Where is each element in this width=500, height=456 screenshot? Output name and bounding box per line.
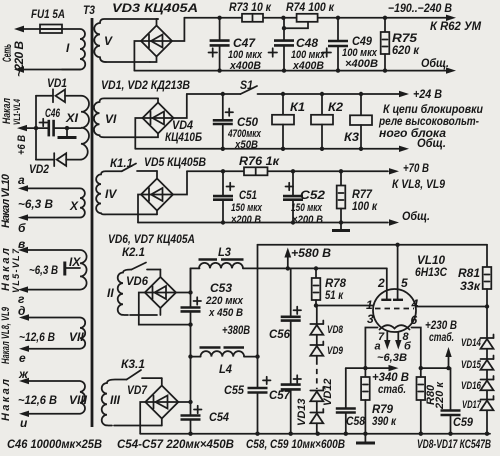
svg-text:VII: VII: [69, 330, 84, 344]
svg-text:К3.1: К3.1: [121, 357, 145, 371]
chassis ground below R77: [332, 223, 350, 231]
zener VD9: [310, 342, 343, 360]
output arrow +580V: [284, 246, 331, 271]
svg-text:+6 В: +6 В: [16, 135, 28, 155]
svg-text:L3: L3: [218, 245, 231, 259]
tube grid dashed: [366, 297, 419, 312]
svg-text:б: б: [18, 221, 26, 235]
inductor L3: [191, 245, 244, 268]
winding VIII arrows and labels: [0, 367, 57, 430]
svg-text:К3: К3: [344, 130, 359, 144]
output arrow -190..-240V: [388, 1, 482, 33]
tube cathode pin 6 wire: [411, 313, 421, 368]
dashed wire omitted zeners VD10 VD11: [316, 360, 318, 390]
output arrow +24V: [378, 87, 483, 140]
node C47 top: [217, 16, 221, 20]
svg-text:К1.1: К1.1: [110, 156, 133, 170]
diode VD1: [36, 76, 81, 102]
node C49 top: [336, 16, 340, 20]
svg-text:5: 5: [401, 276, 408, 290]
output arrow Общ +70V section: [389, 209, 430, 226]
svg-text:С54: С54: [209, 410, 229, 424]
svg-text:VD9: VD9: [327, 345, 344, 357]
wire VD5 plus to +70V rail: [173, 171, 187, 194]
svg-text:С50: С50: [237, 115, 258, 129]
svg-text:К VL8, VL9: К VL8, VL9: [392, 177, 445, 191]
svg-text:стаб.: стаб.: [378, 382, 406, 396]
svg-text:Общ.: Общ.: [402, 209, 430, 223]
wire pin4 to R81: [416, 306, 487, 308]
svg-text:620 к: 620 к: [392, 43, 420, 57]
svg-text:VD17: VD17: [462, 399, 482, 411]
wire anode top rail +380: [258, 243, 488, 247]
relay K2: [311, 92, 343, 149]
wire VD3 plus to top rail: [172, 18, 184, 41]
common rail +24V section: [135, 147, 401, 151]
svg-text:VD8-VD17 КС547В: VD8-VD17 КС547В: [417, 437, 491, 451]
wire +70V rail: [187, 170, 244, 172]
svg-text:VD16: VD16: [461, 380, 482, 392]
wire primary bottom: [18, 69, 80, 71]
svg-text:R81: R81: [458, 266, 480, 280]
wire VD6 minus down to +380 node: [139, 293, 191, 325]
svg-text:R74 100 к: R74 100 к: [286, 0, 335, 14]
svg-text:VD1, VD2 КД213В: VD1, VD2 КД213В: [101, 78, 190, 92]
heater +6V output arrow: [1, 98, 36, 155]
svg-text:FU1 5А: FU1 5А: [31, 7, 65, 21]
capacitor C58: [336, 368, 365, 434]
svg-text:е: е: [19, 351, 26, 365]
winding VII: [28, 318, 85, 349]
resistor R78: [312, 266, 347, 305]
svg-text:К R62 УМ: К R62 УМ: [430, 19, 482, 33]
svg-text:б: б: [404, 341, 412, 353]
output arrow +340V: [372, 365, 409, 396]
svg-text:С54-С57 220мк×450В: С54-С57 220мк×450В: [117, 437, 234, 451]
wire +230 cathode line: [419, 366, 451, 370]
svg-text:~6,3 В: ~6,3 В: [29, 263, 58, 277]
capacitor C55: [224, 377, 271, 434]
winding IX arrows and labels: [0, 237, 58, 306]
svg-text:х 450 В: х 450 В: [208, 307, 243, 319]
tube cathode arcs: [380, 325, 410, 329]
svg-text:Накал VL10: Накал VL10: [0, 173, 12, 228]
winding VI: [94, 98, 158, 137]
wire left vertical heater rectifier: [35, 96, 37, 160]
svg-text:1: 1: [366, 298, 373, 312]
svg-text:ж: ж: [18, 367, 29, 381]
svg-text:VD6: VD6: [126, 274, 148, 288]
svg-text:V: V: [104, 34, 113, 48]
svg-text:VD5 КЦ405В: VD5 КЦ405В: [144, 155, 206, 169]
node R73/R74: [281, 16, 285, 20]
svg-text:VD12: VD12: [322, 378, 334, 406]
wire +580 line: [243, 267, 387, 269]
svg-text:VIII: VIII: [69, 393, 88, 407]
svg-text:3: 3: [367, 312, 374, 326]
capacitor C59: [441, 368, 474, 434]
svg-text:Общ.: Общ.: [421, 56, 449, 70]
wire VD3 minus to common rail: [134, 41, 141, 71]
svg-text:С52: С52: [300, 188, 325, 202]
common rail top section: [134, 70, 448, 72]
capacitor C46: [34, 106, 67, 136]
svg-text:X: X: [69, 199, 79, 213]
svg-text:С56: С56: [269, 327, 290, 341]
wire VD4 AC top riser: [157, 98, 159, 102]
svg-text:VL1-VL4: VL1-VL4: [12, 99, 22, 125]
heater pins 7 8 arrows: [375, 331, 413, 364]
winding IV: [96, 171, 157, 214]
svg-text:~12,6 В: ~12,6 В: [19, 330, 55, 344]
zener VD16: [461, 376, 494, 400]
bridge rectifier VD5: [141, 155, 206, 211]
wire VD7 plus to +380 column: [178, 325, 192, 416]
inductor L4: [188, 348, 257, 377]
svg-text:Общ.: Общ.: [417, 136, 446, 150]
switch K3.1: [121, 357, 162, 380]
svg-text:VD14: VD14: [461, 337, 481, 349]
capacitor C53: [181, 268, 244, 324]
bridge rectifier VD3: [112, 1, 198, 57]
resistor R79: [361, 368, 397, 434]
node C46 right / chassis: [58, 126, 82, 138]
resistor R77: [337, 169, 378, 222]
svg-text:С46: С46: [45, 106, 60, 120]
wire VD5 AC top riser: [156, 171, 158, 179]
svg-text:220 к: 220 к: [434, 381, 446, 410]
svg-text:−190..−240 В: −190..−240 В: [388, 1, 452, 15]
resistor R80: [417, 368, 447, 434]
node grid / zener column top: [314, 303, 318, 307]
switch K1.1: [110, 156, 157, 171]
svg-text:51 к: 51 к: [325, 288, 344, 302]
wire top rail -190V: [184, 17, 448, 19]
capacitor C52: [283, 169, 325, 226]
output arrow Общ top: [421, 56, 456, 74]
svg-text:С55: С55: [224, 383, 244, 397]
wire +340 cathode line: [346, 366, 389, 370]
svg-text:С58: С58: [346, 414, 365, 428]
svg-text:+70 В: +70 В: [403, 161, 429, 175]
svg-text:С48: С48: [296, 36, 318, 50]
svg-text:150 мкх: 150 мкх: [291, 202, 323, 214]
svg-text:×400В: ×400В: [345, 58, 378, 70]
transformer T3 core: [83, 3, 95, 427]
svg-text:~12,6 В: ~12,6 В: [18, 393, 57, 407]
bridge rectifier VD6: [126, 274, 176, 308]
chassis ground below R79: [356, 434, 375, 443]
capacitor C57: [269, 375, 301, 433]
node R75 top: [383, 16, 387, 20]
winding III: [102, 380, 162, 426]
wire VD3 AC top riser: [156, 19, 158, 26]
bottom common rail: [140, 432, 490, 436]
winding I: [62, 29, 85, 70]
winding IX with chassis tap: [27, 250, 87, 290]
capacitor C49: [323, 18, 379, 71]
wire VD6 plus to L3: [176, 268, 191, 292]
output arrow Общ +24V section: [399, 136, 446, 152]
tube cathode pin 3 wire: [365, 312, 377, 368]
svg-text:д: д: [18, 304, 25, 318]
svg-text:Накал VL8, VL9: Накал VL8, VL9: [0, 306, 12, 364]
svg-text:33к: 33к: [460, 279, 481, 293]
relay K3: [344, 92, 372, 149]
svg-text:VD1: VD1: [47, 76, 67, 90]
svg-text:С59: С59: [453, 415, 473, 429]
switch S1: [240, 78, 406, 94]
wire VD4 plus to +24V rail: [174, 94, 187, 118]
svg-text:VD7: VD7: [127, 383, 148, 397]
winding V: [94, 19, 158, 62]
svg-text:II: II: [107, 286, 114, 300]
winding VIII: [28, 381, 88, 414]
svg-text:VI: VI: [105, 112, 117, 126]
wire VD6 AC top riser: [159, 270, 161, 278]
svg-text:Т3: Т3: [83, 3, 95, 17]
svg-text:4: 4: [411, 297, 419, 311]
svg-text:а: а: [375, 341, 381, 353]
capacitor C50: [213, 92, 262, 151]
resistor R73: [229, 0, 272, 22]
wire VD5 AC bottom riser: [156, 211, 158, 215]
capacitor C56: [269, 268, 301, 384]
svg-text:С53: С53: [210, 281, 232, 295]
svg-text:~6,3В: ~6,3В: [377, 352, 407, 364]
svg-text:VD3 КЦ405А: VD3 КЦ405А: [112, 1, 198, 15]
svg-text:IV: IV: [105, 187, 117, 201]
svg-text:Накал: Накал: [0, 379, 12, 421]
winding X: [27, 188, 85, 217]
capacitor C54: [181, 406, 230, 434]
svg-text:×200 В: ×200 В: [292, 214, 323, 226]
zener VD15: [461, 356, 494, 380]
wire VD7 minus to bottom rail: [140, 402, 145, 434]
svg-text:R76 1к: R76 1к: [239, 154, 280, 168]
tube anode pin 5 lead from +380 rail: [393, 245, 408, 300]
wire VD7 AC top riser: [161, 378, 163, 385]
svg-text:С51: С51: [239, 188, 257, 202]
svg-text:VD15: VD15: [461, 359, 482, 371]
resistor R76: [239, 154, 280, 175]
resistor R81: [458, 245, 491, 309]
svg-text:XI: XI: [65, 111, 79, 125]
svg-text:VD2: VD2: [29, 162, 49, 176]
zener VD17: [462, 396, 494, 434]
svg-text:VD6, VD7 КЦ405А: VD6, VD7 КЦ405А: [108, 232, 195, 246]
switch K2.1: [122, 245, 160, 270]
wire +380 column: [222, 245, 260, 388]
svg-text:~220 В: ~220 В: [12, 41, 26, 77]
svg-text:а: а: [18, 173, 25, 187]
svg-text:+380В: +380В: [222, 323, 250, 337]
svg-text:С46 10000мк×25В: С46 10000мк×25В: [7, 437, 102, 451]
node +380 column top: [188, 322, 192, 326]
wire VD6 AC bottom riser: [159, 308, 161, 315]
svg-text:100 к: 100 к: [352, 199, 378, 213]
winding XI with center tap: [65, 96, 89, 160]
resistor R75: [381, 18, 420, 71]
svg-text:К2: К2: [328, 100, 343, 114]
zener VD8: [310, 306, 343, 346]
svg-text:S1: S1: [240, 78, 253, 92]
svg-text:и: и: [20, 416, 28, 430]
svg-text:6: 6: [411, 313, 418, 327]
svg-text:R73 10 к: R73 10 к: [229, 0, 272, 14]
svg-text:К1: К1: [290, 100, 305, 114]
winding X arrows and labels: [0, 173, 53, 235]
svg-text:150 мкх: 150 мкх: [231, 202, 263, 214]
svg-text:К2.1: К2.1: [122, 245, 145, 259]
svg-text:+580 В: +580 В: [291, 246, 331, 260]
svg-text:С58, С59 10мк×600В: С58, С59 10мк×600В: [246, 437, 345, 451]
fuse FU1: [24, 7, 65, 33]
wire +24V rail: [187, 93, 241, 95]
mains input arrows Сеть ~220В: [0, 26, 26, 77]
zener VD14: [461, 307, 494, 360]
capacitor C47: [209, 18, 263, 72]
relay K1: [272, 92, 305, 149]
svg-text:С47: С47: [233, 36, 256, 50]
svg-text:КЦ410Б: КЦ410Б: [165, 130, 202, 144]
svg-text:VL5-VL7: VL5-VL7: [11, 248, 21, 293]
wire grid line to tube pin1: [316, 305, 374, 307]
svg-text:IX: IX: [69, 255, 81, 269]
tube anode pin 2 lead from +580: [377, 268, 391, 299]
winding II: [107, 270, 157, 316]
tube VL10 6N13S: [373, 253, 447, 332]
svg-text:390 к: 390 к: [372, 414, 397, 428]
svg-text:С57: С57: [269, 388, 291, 402]
svg-text:~6,3 В: ~6,3 В: [18, 197, 53, 211]
resistor R74 with tap: [282, 0, 335, 30]
wire VD7 AC bottom riser: [161, 419, 163, 426]
wire VD4 minus to rail: [135, 118, 142, 149]
bridge rectifier VD7: [127, 383, 178, 419]
wire VD3 AC bottom riser: [150, 57, 157, 63]
svg-text:стаб.: стаб.: [429, 330, 454, 344]
winding VII arrows and labels: [0, 304, 55, 365]
svg-text:VD8: VD8: [327, 324, 344, 336]
zener VD13: [296, 398, 323, 433]
svg-text:С49: С49: [352, 34, 372, 48]
svg-text:III: III: [110, 393, 121, 407]
zener VD12: [310, 378, 334, 412]
common rail +70V section: [138, 220, 388, 224]
svg-text:VD13: VD13: [296, 398, 308, 426]
output arrow +70V: [389, 161, 445, 191]
bridge rectifier VD4: [143, 103, 203, 145]
svg-text:×200 В: ×200 В: [231, 214, 261, 226]
wire VD4 AC bottom riser: [152, 134, 158, 138]
svg-text:в: в: [18, 237, 25, 251]
capacitor C48: [269, 18, 326, 72]
wire VD5 minus to rail: [138, 195, 141, 223]
svg-text:+24 В: +24 В: [413, 87, 442, 101]
svg-text:6Н13С: 6Н13С: [415, 265, 447, 279]
svg-text:220 мкх: 220 мкх: [205, 295, 244, 307]
output arrow +230V: [425, 318, 457, 368]
svg-text:2: 2: [377, 276, 385, 290]
diode VD2: [29, 153, 81, 176]
svg-text:L4: L4: [219, 362, 232, 376]
capacitor C51: [213, 169, 263, 226]
